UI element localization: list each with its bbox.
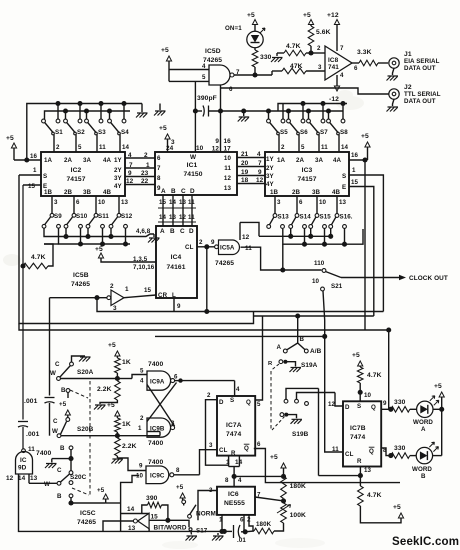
- svg-text:W: W: [44, 481, 50, 488]
- svg-text:IC7B: IC7B: [350, 425, 366, 432]
- svg-text:+5: +5: [59, 401, 67, 408]
- svg-text:10: 10: [196, 145, 204, 152]
- wire IC5C pin 13 to bottom rail: [148, 529, 150, 532]
- svg-text:S: S: [342, 173, 346, 180]
- svg-text:S17: S17: [196, 528, 208, 535]
- svg-text:S20A: S20A: [77, 369, 94, 376]
- svg-text:2: 2: [110, 283, 114, 290]
- ground (bus1 S9-S12): [153, 234, 155, 237]
- dashed gang S20C: [89, 443, 91, 496]
- IC2 74157: [41, 152, 125, 196]
- svg-text:S2: S2: [77, 129, 85, 136]
- ground (2.2K lower): [111, 459, 123, 464]
- svg-text:3: 3: [277, 199, 281, 206]
- svg-text:14: 14: [127, 506, 135, 513]
- svg-text:SeekIC.com: SeekIC.com: [392, 536, 459, 548]
- svg-text:22: 22: [141, 178, 149, 185]
- svg-text:3B: 3B: [83, 189, 92, 196]
- switch S7: [308, 111, 310, 120]
- svg-text:4.7K: 4.7K: [286, 43, 301, 50]
- switch A/B select: [297, 316, 299, 343]
- svg-text:S9: S9: [54, 213, 62, 220]
- svg-text:4B: 4B: [332, 189, 341, 196]
- svg-text:4: 4: [128, 152, 132, 159]
- svg-text:7: 7: [129, 162, 133, 169]
- resistor 4.7K (IC7B R): [358, 486, 364, 506]
- svg-text:13: 13: [339, 199, 347, 206]
- svg-text:4: 4: [238, 477, 242, 484]
- svg-text:.001: .001: [24, 398, 38, 405]
- svg-text:+12: +12: [327, 12, 339, 19]
- svg-text:2Y: 2Y: [114, 167, 123, 174]
- wire S20C common row: [71, 502, 106, 504]
- svg-text:8: 8: [225, 477, 229, 484]
- svg-text:8: 8: [176, 467, 180, 474]
- svg-text:S10: S10: [76, 213, 88, 220]
- svg-text:B: B: [171, 188, 176, 195]
- wire IC9C output up to IC7A: [174, 474, 200, 476]
- svg-text:2Y: 2Y: [266, 165, 275, 172]
- wire IC2 E pin 15: [23, 184, 41, 186]
- svg-text:S7: S7: [320, 129, 328, 136]
- svg-text:1: 1: [352, 167, 356, 174]
- svg-text:2.2K: 2.2K: [122, 443, 137, 450]
- gate IC9B 7400: [147, 418, 171, 437]
- svg-text:-12: -12: [329, 96, 339, 103]
- svg-text:74157: 74157: [297, 176, 316, 183]
- svg-text:5: 5: [140, 368, 144, 375]
- svg-text:13: 13: [224, 185, 232, 192]
- IC1 74150: [155, 152, 237, 195]
- svg-text:4: 4: [140, 377, 144, 384]
- svg-text:74150: 74150: [183, 171, 202, 178]
- svg-text:CR: CR: [158, 292, 168, 299]
- svg-text:D: D: [345, 404, 350, 411]
- svg-text:6: 6: [299, 199, 303, 206]
- svg-text:IC9A: IC9A: [150, 379, 165, 386]
- ground (4.7K): [276, 53, 278, 56]
- ground (S19B): [291, 419, 303, 424]
- svg-text:+5: +5: [393, 504, 401, 511]
- wire IC9B input pin1: [159, 432, 161, 436]
- wire S21 rail down to IC7B CL: [325, 336, 343, 452]
- resistor 2.2K (lower): [115, 438, 121, 456]
- scan artifact patches: [336, 96, 364, 110]
- svg-text:15: 15: [159, 199, 167, 206]
- svg-text:20: 20: [241, 160, 249, 167]
- svg-text:C: C: [180, 228, 185, 235]
- connector J2 TTL serial data out: [389, 89, 399, 99]
- svg-text:11: 11: [321, 144, 328, 151]
- svg-text:2: 2: [56, 144, 60, 151]
- svg-text:390: 390: [146, 495, 158, 502]
- svg-text:DATA OUT: DATA OUT: [404, 98, 436, 105]
- wire to IC9C pin 10: [106, 502, 121, 504]
- svg-text:6: 6: [76, 199, 80, 206]
- svg-text:NE555: NE555: [224, 500, 245, 507]
- wire CL junction down: [206, 247, 208, 312]
- wire inverter input: [50, 297, 107, 299]
- svg-text:390pF: 390pF: [197, 95, 217, 102]
- svg-text:C: C: [57, 467, 62, 474]
- svg-text:CL: CL: [185, 244, 194, 251]
- wire IC5C pin 14: [121, 513, 150, 515]
- svg-text:ON=1: ON=1: [225, 25, 242, 32]
- switch S20C: [70, 459, 72, 471]
- svg-text:6: 6: [354, 65, 358, 72]
- svg-text:IC3: IC3: [302, 167, 313, 174]
- svg-text:W: W: [52, 428, 58, 435]
- resistor 1K (lower): [115, 411, 120, 416]
- svg-text:6: 6: [257, 441, 261, 448]
- op-amp IC8 741: [325, 46, 352, 80]
- svg-text:3B: 3B: [312, 189, 321, 196]
- svg-text:2A: 2A: [296, 157, 305, 164]
- wires IC1 ABCD to IC4: [162, 195, 164, 226]
- wire NE555 pins 6,2: [243, 515, 245, 532]
- svg-text:2: 2: [199, 239, 203, 246]
- ground (bus A right end): [141, 104, 143, 113]
- svg-text:180K: 180K: [256, 521, 272, 528]
- svg-text:10: 10: [98, 199, 106, 206]
- svg-text:R: R: [357, 458, 362, 465]
- svg-text:1Y: 1Y: [114, 157, 123, 164]
- svg-text:7: 7: [258, 160, 262, 167]
- svg-text:16: 16: [351, 152, 359, 159]
- wire op-amp pin 4 to -12: [336, 75, 338, 87]
- svg-text:D: D: [219, 399, 224, 406]
- svg-text:CLOCK OUT: CLOCK OUT: [409, 275, 448, 282]
- svg-text:Q: Q: [369, 448, 374, 455]
- svg-text:1,3,5: 1,3,5: [133, 256, 148, 263]
- wire S20B W row: [61, 435, 160, 437]
- switch S1: [42, 119, 46, 123]
- svg-text:9: 9: [177, 303, 181, 310]
- svg-text:B: B: [60, 445, 65, 452]
- svg-text:1K: 1K: [122, 421, 131, 428]
- wire pin16 rail down to H330: [362, 157, 367, 162]
- svg-text:S8: S8: [340, 129, 348, 136]
- svg-text:4: 4: [202, 63, 206, 70]
- svg-text:4: 4: [340, 72, 344, 79]
- wire IC7B D pin12: [335, 393, 343, 407]
- wire IC9A inputs: [117, 378, 132, 380]
- svg-text:R: R: [231, 450, 236, 457]
- svg-text:100K: 100K: [290, 512, 306, 519]
- svg-text:13: 13: [364, 467, 372, 474]
- svg-text:D: D: [189, 228, 194, 235]
- bus line A' (right bank): [278, 104, 347, 112]
- svg-text:18: 18: [241, 177, 249, 184]
- svg-text:NORM: NORM: [196, 511, 216, 518]
- LED WORD A: [417, 401, 433, 417]
- svg-text:A: A: [421, 426, 426, 433]
- wire horizontal H330: [19, 324, 389, 331]
- svg-text:11: 11: [224, 165, 231, 172]
- svg-text:11: 11: [28, 446, 35, 453]
- svg-text:2: 2: [207, 392, 211, 399]
- svg-text:C: C: [55, 361, 60, 368]
- connector J1 EIA serial data out: [389, 58, 399, 68]
- gate IC5A 74265: [215, 245, 219, 249]
- resistor 330 (LED): [254, 48, 256, 50]
- svg-text:6: 6: [229, 86, 233, 93]
- ground (S17): [186, 536, 198, 541]
- IC3 74157: [265, 152, 349, 196]
- wire NE555 pin 1 ground: [221, 515, 223, 532]
- svg-text:S20C: S20C: [70, 474, 87, 481]
- svg-text:S19B: S19B: [292, 431, 309, 438]
- IC7A 7474: [217, 396, 255, 456]
- svg-text:A/B: A/B: [310, 348, 322, 355]
- svg-text:Q: Q: [371, 404, 376, 411]
- svg-text:B: B: [300, 336, 305, 343]
- svg-text:2B: 2B: [292, 189, 301, 196]
- svg-text:2B: 2B: [64, 189, 73, 196]
- svg-text:.001: .001: [26, 431, 40, 438]
- switch S10: [73, 196, 75, 214]
- IC7B 7474: [343, 401, 381, 466]
- svg-text:+5: +5: [303, 12, 311, 19]
- svg-text:7: 7: [157, 165, 161, 172]
- wire IC9C pin 9: [117, 458, 146, 471]
- ground (data line): [243, 111, 245, 116]
- svg-text:2: 2: [144, 152, 148, 159]
- wire IC5D pin5 input: [169, 80, 209, 82]
- ground (S19A): [290, 368, 302, 373]
- svg-text:IC9C: IC9C: [150, 473, 165, 480]
- svg-text:+5: +5: [108, 342, 116, 349]
- svg-text:IC7A: IC7A: [226, 422, 242, 429]
- svg-text:3Y: 3Y: [266, 173, 275, 180]
- bus line A (left bank): [27, 104, 142, 161]
- wire S20B B to ground: [70, 450, 72, 459]
- ground (near IC1 +5): [159, 104, 161, 111]
- cross-coupling wires: [147, 383, 177, 422]
- svg-text:4A: 4A: [103, 157, 112, 164]
- wires IC2 Y outputs to IC1: [125, 157, 155, 159]
- svg-text:7400: 7400: [148, 459, 163, 466]
- svg-text:W: W: [50, 370, 56, 377]
- svg-text:W: W: [190, 154, 197, 161]
- svg-text:9: 9: [211, 239, 215, 246]
- svg-text:1: 1: [138, 425, 142, 432]
- svg-text:7: 7: [340, 45, 344, 52]
- svg-text:13: 13: [169, 214, 177, 221]
- svg-text:+5: +5: [352, 352, 360, 359]
- svg-text:12: 12: [256, 177, 264, 184]
- svg-text:B: B: [57, 493, 62, 500]
- wire H330 end down to IC7B Q node: [388, 330, 390, 409]
- wire power junction to +5: [234, 475, 283, 477]
- svg-text:5: 5: [78, 144, 82, 151]
- svg-text:D: D: [190, 188, 195, 195]
- svg-text:10: 10: [224, 155, 232, 162]
- svg-text:IC1: IC1: [187, 162, 198, 169]
- svg-text:9: 9: [383, 400, 387, 407]
- svg-text:11: 11: [245, 245, 252, 252]
- svg-text:3Y: 3Y: [114, 175, 123, 182]
- svg-text:12: 12: [126, 178, 134, 185]
- svg-text:IC5A: IC5A: [220, 245, 235, 252]
- potentiometer 100K: [281, 503, 287, 523]
- svg-text:4,6,8: 4,6,8: [136, 228, 151, 235]
- svg-text:4.7K: 4.7K: [31, 254, 46, 261]
- svg-text:330: 330: [394, 445, 406, 452]
- switch S3: [86, 111, 88, 120]
- wire IC9A out to IC7A S pin4: [234, 381, 236, 396]
- svg-text:L: L: [172, 292, 176, 299]
- svg-text:4Y: 4Y: [114, 183, 123, 190]
- svg-text:S4: S4: [121, 129, 129, 136]
- wire IC5A output to S21: [241, 247, 322, 270]
- switch S9: [51, 196, 53, 214]
- svg-text:Q: Q: [244, 445, 249, 452]
- svg-text:3A: 3A: [315, 157, 324, 164]
- capacitor .01: [233, 525, 235, 538]
- svg-text:15: 15: [28, 183, 36, 190]
- svg-text:3: 3: [171, 420, 175, 427]
- svg-text:IC5C: IC5C: [80, 510, 96, 517]
- svg-text:11: 11: [332, 446, 339, 453]
- node op-amp pin2: [308, 50, 313, 55]
- svg-text:4: 4: [236, 386, 240, 393]
- svg-text:330: 330: [260, 54, 272, 61]
- node data line junctions: [218, 108, 223, 113]
- svg-text:330: 330: [394, 399, 406, 406]
- ground (2.2K upper): [94, 405, 106, 410]
- svg-text:9: 9: [128, 170, 132, 177]
- svg-text:B: B: [421, 473, 426, 480]
- svg-text:S20B: S20B: [77, 426, 94, 433]
- svg-text:J1: J1: [404, 51, 412, 58]
- svg-text:12: 12: [6, 475, 14, 482]
- svg-text:+5: +5: [176, 484, 184, 491]
- svg-text:1A: 1A: [277, 157, 286, 164]
- dashed gang S19A-S19B: [272, 364, 280, 370]
- svg-text:+5: +5: [270, 454, 278, 461]
- svg-text:A: A: [277, 344, 282, 351]
- svg-text:7474: 7474: [226, 431, 241, 438]
- svg-text:13: 13: [121, 199, 129, 206]
- svg-text:EIA SERIAL: EIA SERIAL: [404, 58, 440, 65]
- svg-text:Q: Q: [246, 399, 251, 406]
- svg-text:74161: 74161: [166, 264, 185, 271]
- bus 1 (S13-S16): [239, 222, 241, 240]
- wire IC9A output: [175, 380, 181, 382]
- switch S14: [296, 196, 298, 214]
- svg-text:BIT/WORD: BIT/WORD: [154, 525, 187, 532]
- svg-text:.01: .01: [237, 537, 246, 544]
- svg-text:180K: 180K: [290, 483, 306, 490]
- wire IC5D output to 47K: [234, 74, 272, 76]
- svg-text:3: 3: [54, 199, 58, 206]
- wire IC5D pin6 input from data line: [220, 85, 222, 152]
- svg-text:S12: S12: [121, 213, 133, 220]
- wire horizontal H323: [19, 175, 254, 324]
- svg-text:11: 11: [188, 214, 195, 221]
- svg-text:3: 3: [209, 442, 213, 449]
- svg-text:13: 13: [30, 475, 38, 482]
- ground (S20B B): [45, 464, 57, 469]
- wire H475 reset line from S19B: [318, 388, 320, 475]
- wire horizontal H316: [254, 315, 374, 317]
- svg-text:IC4: IC4: [171, 254, 182, 261]
- svg-text:74157: 74157: [66, 176, 85, 183]
- ground (NE555 pin1): [212, 536, 224, 541]
- switch S16: [336, 196, 338, 214]
- svg-text:3.3K: 3.3K: [357, 49, 372, 56]
- svg-text:+5: +5: [97, 487, 105, 494]
- svg-text:S14: S14: [300, 213, 312, 220]
- wire IC5C output: [103, 521, 133, 531]
- svg-text:1Y: 1Y: [266, 156, 275, 163]
- wire IC7A CL pin3 from IC9C: [200, 450, 218, 475]
- svg-text:IC5D: IC5D: [205, 48, 221, 55]
- svg-text:C: C: [53, 418, 58, 425]
- svg-text:IC5B: IC5B: [73, 272, 89, 279]
- svg-text:741: 741: [328, 64, 339, 71]
- svg-text:3: 3: [318, 64, 322, 71]
- svg-text:+5: +5: [161, 47, 169, 54]
- svg-text:TTL SERIAL: TTL SERIAL: [404, 91, 441, 98]
- svg-text:10: 10: [312, 278, 320, 285]
- svg-text:S5: S5: [280, 129, 288, 136]
- wire IC7A Q pin5: [255, 316, 262, 400]
- svg-text:+5: +5: [247, 12, 255, 19]
- svg-text:15: 15: [351, 179, 359, 186]
- wire IC1 W pin 10 up to IC5D pin5: [194, 81, 196, 152]
- svg-text:1B: 1B: [44, 189, 53, 196]
- dashed gang S20A-S20B: [89, 381, 91, 441]
- switch S13: [274, 196, 276, 214]
- svg-text:16: 16: [30, 153, 38, 160]
- wire NE555 pin 7: [255, 497, 284, 501]
- svg-text:S: S: [357, 403, 361, 410]
- svg-text:14: 14: [159, 214, 167, 221]
- svg-text:74265: 74265: [215, 260, 234, 267]
- wire IC7A R pins 1,14 down: [228, 456, 230, 467]
- wire S20C W to IC9D: [29, 482, 57, 484]
- svg-text:CL: CL: [345, 451, 354, 458]
- switch S4: [109, 111, 111, 120]
- svg-text:12: 12: [242, 234, 250, 241]
- svg-text:E: E: [342, 184, 346, 191]
- svg-text:IC8: IC8: [328, 57, 339, 64]
- switch S11: [95, 196, 97, 214]
- svg-text:15: 15: [144, 287, 152, 294]
- svg-text:4A: 4A: [333, 157, 342, 164]
- svg-text:CL: CL: [219, 447, 228, 454]
- svg-text:7,10,16: 7,10,16: [133, 264, 155, 271]
- svg-text:14: 14: [341, 144, 349, 151]
- svg-text:7400: 7400: [36, 450, 51, 457]
- svg-text:7400: 7400: [148, 361, 163, 368]
- svg-text:2: 2: [317, 45, 321, 52]
- gate IC5D: [209, 65, 230, 85]
- bus 1 (S9-S12): [44, 228, 154, 237]
- svg-text:+5: +5: [361, 133, 369, 140]
- svg-text:23: 23: [141, 170, 149, 177]
- svg-text:S6: S6: [300, 129, 308, 136]
- node IC5D output junction: [252, 72, 257, 77]
- wire IC2 S pin 1: [19, 174, 41, 176]
- svg-text:4: 4: [257, 151, 261, 158]
- svg-text:4Y: 4Y: [266, 181, 275, 188]
- LED WORD B: [416, 447, 432, 463]
- svg-text:S: S: [230, 397, 234, 404]
- svg-text:S13: S13: [278, 213, 290, 220]
